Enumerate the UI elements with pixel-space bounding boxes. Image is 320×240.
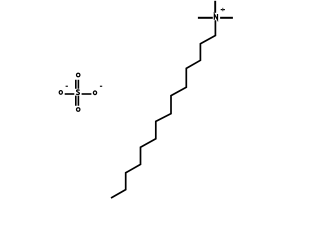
methyl bond left (198, 17, 213, 19)
nitrogen N (214, 14, 217, 20)
trimethylammonium head group (198, 1, 233, 20)
single bond S-O left (65, 93, 75, 95)
sulfur S (76, 90, 79, 95)
minus charge right (100, 86, 102, 87)
sulfate group SO4 2- (59, 73, 96, 111)
oxygen O bottom (77, 108, 80, 112)
methyl bond up (214, 1, 216, 13)
oxygen O top (77, 73, 80, 77)
oxygen O left (59, 91, 62, 95)
double bond S=O bottom (76, 96, 79, 106)
methyl bond right (220, 17, 233, 19)
tetradecyl chain (111, 20, 215, 198)
oxygen O right (93, 91, 96, 95)
single bond S-O right (82, 93, 92, 95)
minus charge left (66, 86, 68, 87)
double bond S=O top (76, 80, 79, 89)
plus charge (221, 9, 225, 11)
